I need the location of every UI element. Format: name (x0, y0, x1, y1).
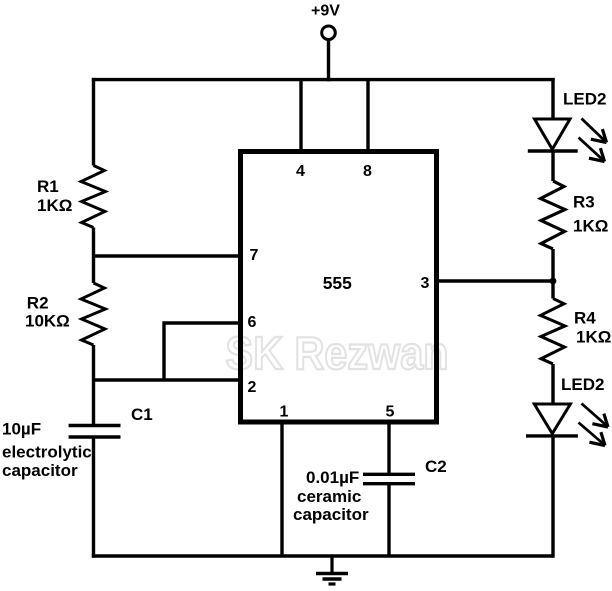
svg-text:1KΩ: 1KΩ (576, 328, 611, 347)
capacitor C2 (363, 474, 415, 483)
wire R3 to R4 (551, 249, 554, 299)
wire pin 1 stem (280, 424, 283, 556)
svg-text:2: 2 (248, 379, 257, 396)
svg-text:LED2: LED2 (563, 90, 606, 109)
capacitor C1 (69, 426, 121, 438)
wire R1 to R2 (92, 228, 95, 284)
wire R4 to LED2 bottom (551, 364, 554, 406)
svg-text:capacitor: capacitor (293, 505, 369, 524)
svg-text:C1: C1 (131, 405, 153, 424)
svg-text:10µF: 10µF (2, 420, 41, 439)
wire pin 2 (94, 378, 241, 381)
LED LED2 (top) (528, 119, 578, 151)
LED2 top arrow 1 (582, 119, 607, 143)
svg-text:R2: R2 (27, 294, 49, 313)
svg-text:7: 7 (250, 247, 259, 264)
svg-text:1KΩ: 1KΩ (573, 217, 608, 236)
wire LED2 to R3 (551, 151, 554, 181)
LED2 top arrow 2 (579, 138, 605, 162)
wire pin 8 stem (366, 80, 369, 152)
wire left branch upper (92, 78, 95, 166)
svg-text:ceramic: ceramic (297, 487, 361, 506)
LED2 bottom arrow 2 (579, 423, 606, 446)
resistor R4 (541, 299, 566, 364)
wire right branch to LED2 top (551, 78, 554, 121)
resistor R2 (81, 283, 106, 345)
svg-text:1: 1 (280, 404, 289, 421)
op-amp timer IC U1 555 (241, 152, 437, 423)
wire C1 to ground bus (92, 437, 95, 558)
svg-text:4: 4 (296, 163, 305, 180)
wire top bus (92, 78, 555, 81)
svg-text:SK Rezwan: SK Rezwan (226, 327, 449, 379)
svg-text:6: 6 (248, 314, 257, 331)
svg-text:R1: R1 (37, 177, 59, 196)
wire pin 5 stem upper (387, 424, 390, 473)
svg-text:8: 8 (363, 163, 372, 180)
svg-text:0.01µF: 0.01µF (306, 468, 359, 487)
resistor R1 (81, 166, 106, 228)
ground (316, 556, 348, 584)
svg-text:capacitor: capacitor (2, 461, 78, 480)
svg-text:C2: C2 (425, 457, 447, 476)
wire pin 3 (437, 279, 554, 282)
resistor R3 (541, 181, 566, 249)
wire +9V stem (327, 40, 330, 82)
wire C2 to bus (387, 484, 390, 556)
wire LED2 bottom to bus (551, 436, 554, 558)
svg-text:R3: R3 (573, 193, 595, 212)
svg-text:555: 555 (323, 273, 352, 293)
svg-text:5: 5 (386, 404, 395, 421)
wire R2 to C1 (92, 345, 95, 425)
wire pin 7 (94, 254, 241, 257)
node +9V terminal (322, 26, 336, 40)
wire bottom bus (92, 554, 553, 557)
svg-text:10KΩ: 10KΩ (25, 312, 70, 331)
svg-text:1KΩ: 1KΩ (37, 196, 72, 215)
wire pin 6 (164, 323, 241, 380)
svg-text:+9V: +9V (311, 3, 340, 20)
svg-text:electrolytic: electrolytic (2, 443, 92, 462)
svg-text:R4: R4 (574, 309, 596, 328)
LED2 bottom arrow 1 (582, 404, 609, 428)
node junction pin3/R3/R4 (550, 278, 557, 285)
svg-text:LED2: LED2 (561, 375, 604, 394)
LED LED2 (bottom) (526, 404, 578, 436)
wire pin 4 stem (299, 80, 302, 152)
svg-text:3: 3 (421, 275, 430, 292)
